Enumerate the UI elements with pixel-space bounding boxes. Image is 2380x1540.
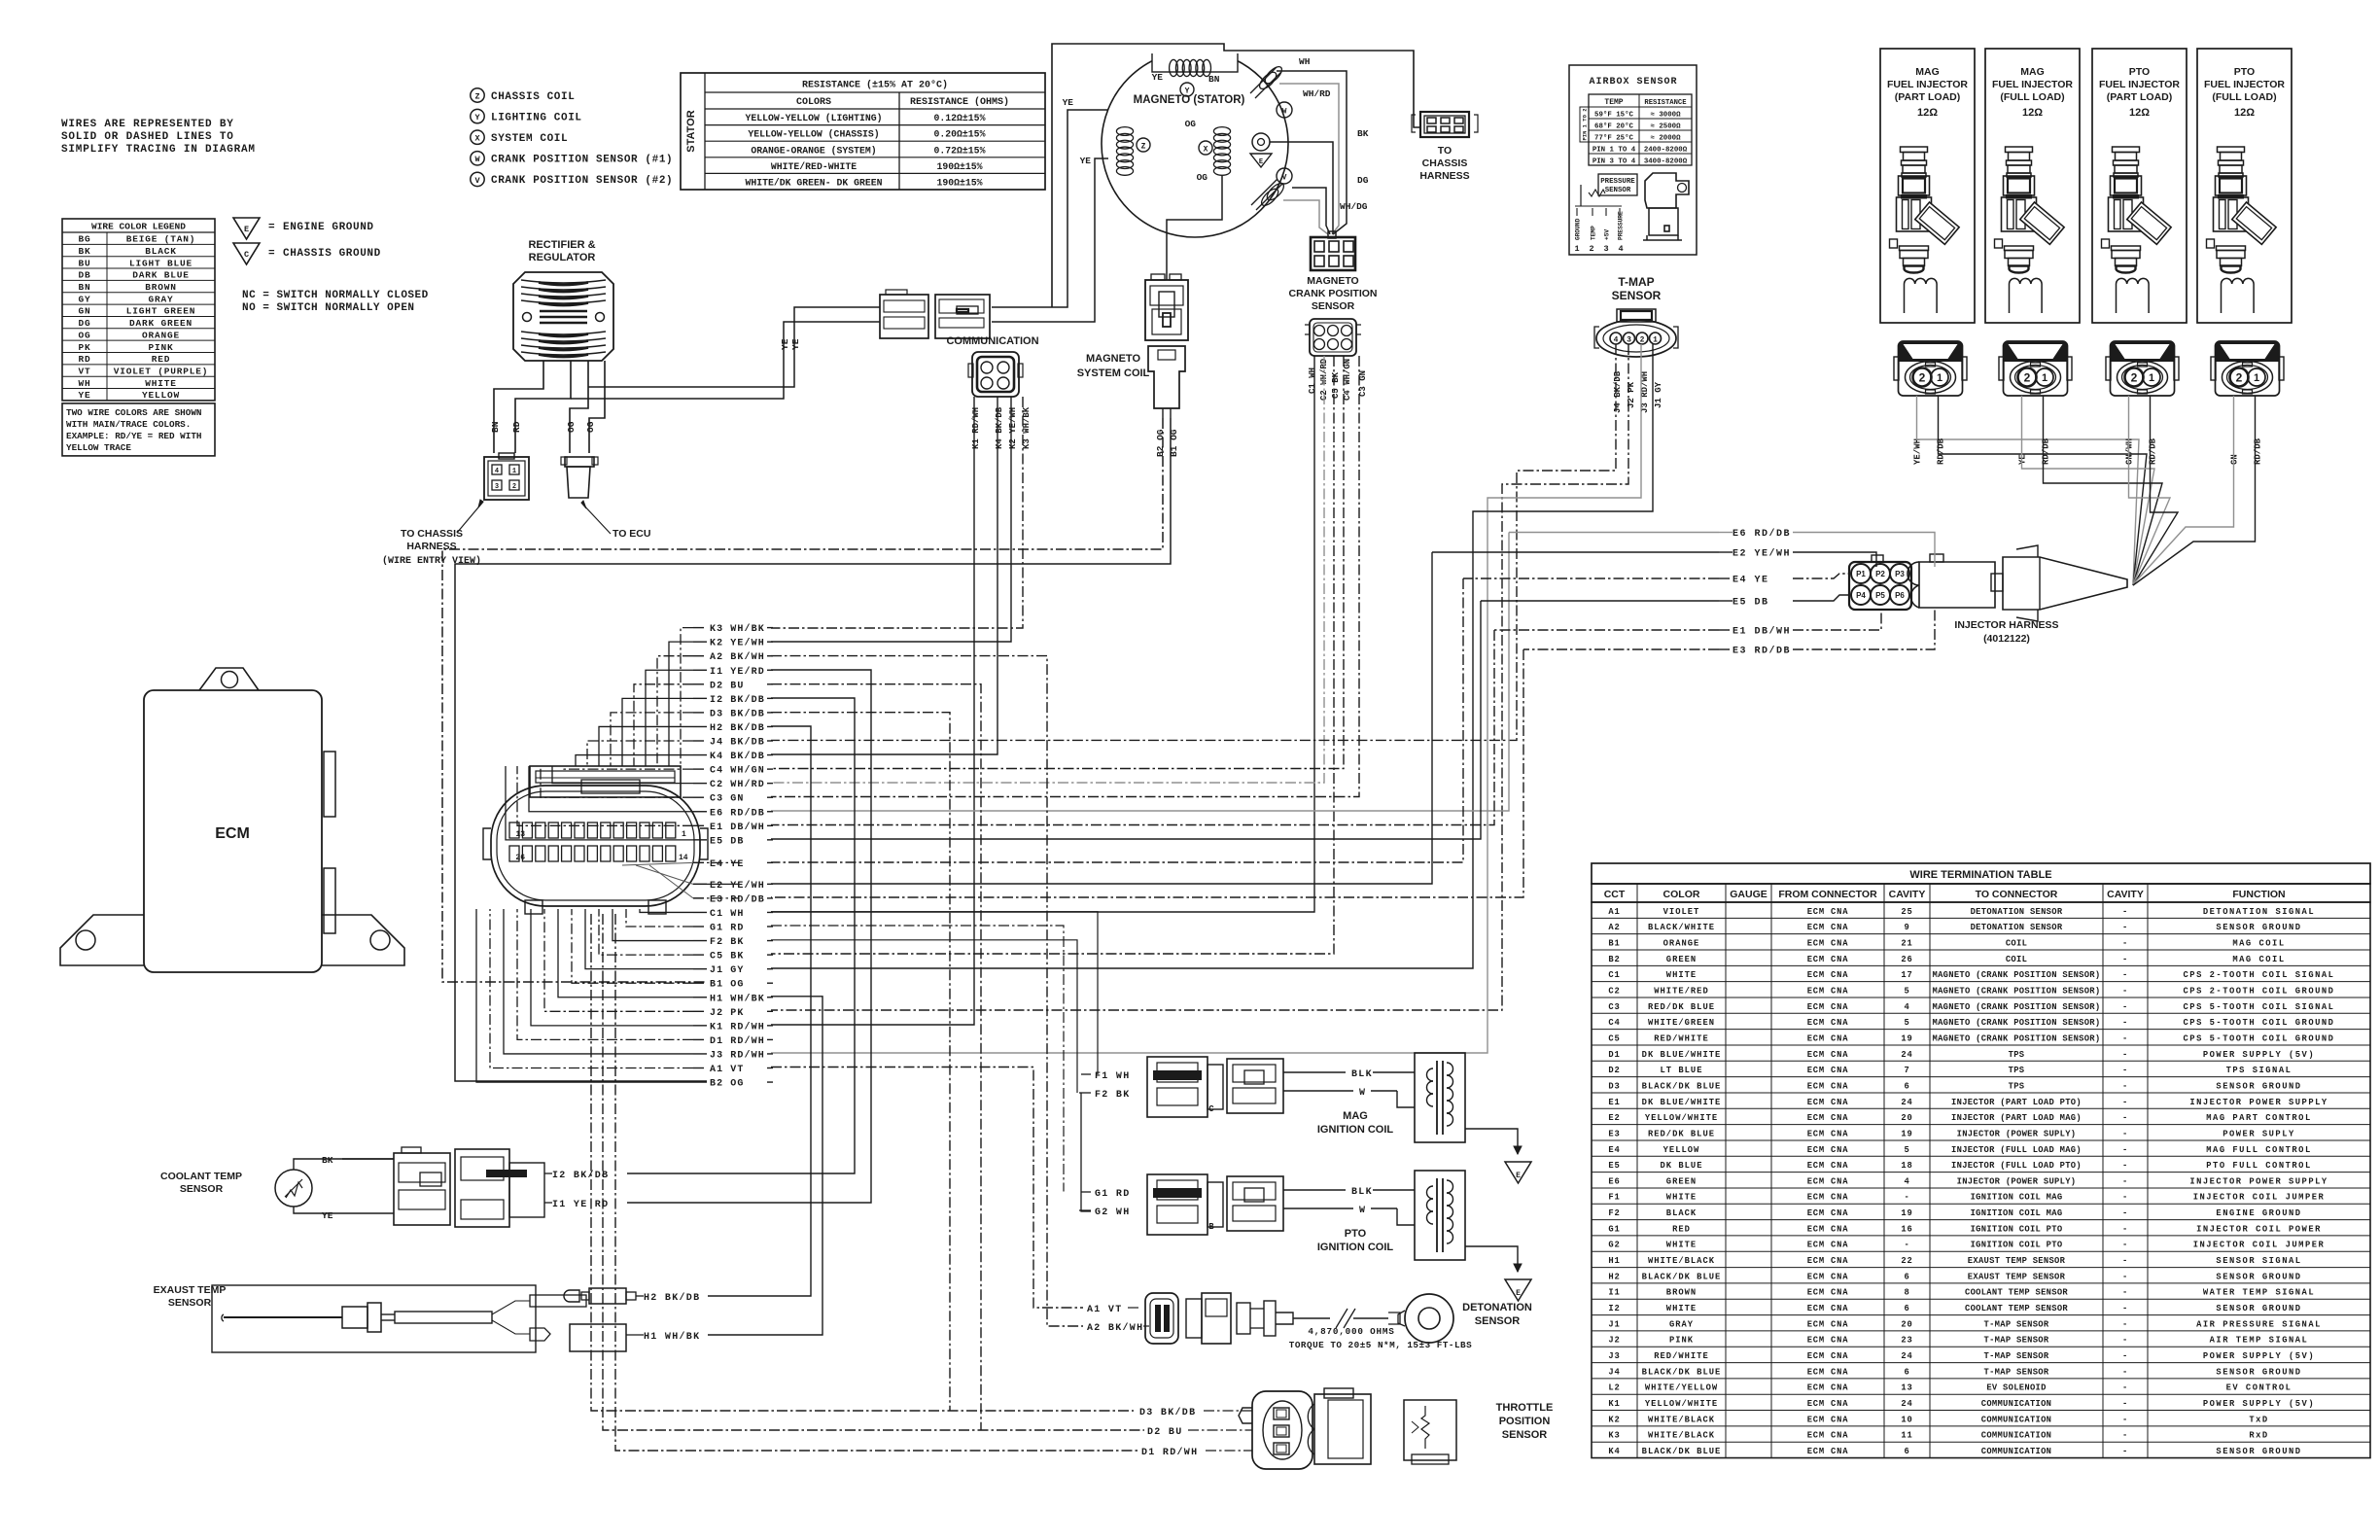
svg-text:F1 WH: F1 WH xyxy=(1095,1071,1131,1082)
svg-text:-: - xyxy=(2122,1113,2128,1123)
svg-text:A2: A2 xyxy=(1608,923,1620,932)
svg-text:SENSOR GROUND: SENSOR GROUND xyxy=(2216,1304,2301,1313)
wire rectifier RD to chassis connector xyxy=(515,361,571,453)
svg-text:GN: GN xyxy=(78,306,90,317)
svg-text:G2: G2 xyxy=(1608,1241,1620,1250)
ECM bottom-left mounting tab xyxy=(60,915,144,965)
svg-text:12Ω: 12Ω xyxy=(2129,107,2150,119)
connector: to chassis harness (6-pin top) xyxy=(1420,112,1469,137)
wire F2 link xyxy=(771,940,1077,1093)
wire B1 to ECM connector bottom xyxy=(572,909,693,983)
svg-text:0.12Ω±15%: 0.12Ω±15% xyxy=(934,113,986,123)
svg-text:A1: A1 xyxy=(1608,907,1620,917)
injector symbol MAG (FULL LOAD) xyxy=(1995,147,2065,273)
svg-text:RED/WHITE: RED/WHITE xyxy=(1654,1351,1709,1361)
svg-text:DG: DG xyxy=(78,318,90,329)
svg-text:PINK: PINK xyxy=(148,342,173,353)
svg-text:K1 RD/WH: K1 RD/WH xyxy=(971,407,981,449)
svg-text:K4 BK/DB: K4 BK/DB xyxy=(710,751,765,762)
svg-text:ECM CNA: ECM CNA xyxy=(1807,1399,1849,1409)
svg-text:RD: RD xyxy=(511,421,522,433)
svg-text:ECM CNA: ECM CNA xyxy=(1807,1319,1849,1329)
svg-text:PRESSURE: PRESSURE xyxy=(1618,211,1625,240)
ECM right side rib 2 xyxy=(324,868,335,933)
svg-text:-: - xyxy=(2122,1018,2128,1028)
svg-text:LT BLUE: LT BLUE xyxy=(1661,1066,1703,1075)
svg-text:OG: OG xyxy=(1197,172,1208,183)
svg-text:C2 WH/RD: C2 WH/RD xyxy=(710,779,765,790)
wire I1 coolant sensor to ECM xyxy=(627,670,871,1203)
chassis coil symbol Z xyxy=(1137,138,1150,152)
svg-text:MAGNETO (CRANK POSITION SENSOR: MAGNETO (CRANK POSITION SENSOR) xyxy=(1933,1018,2101,1028)
svg-text:W: W xyxy=(1359,1206,1366,1216)
svg-text:LIGHT GREEN: LIGHT GREEN xyxy=(126,306,196,317)
svg-text:NO = SWITCH NORMALLY OPEN: NO = SWITCH NORMALLY OPEN xyxy=(242,302,415,314)
detonation sensor cable with break xyxy=(1293,1317,1330,1319)
svg-text:23: 23 xyxy=(1901,1336,1912,1346)
svg-text:CHASSIS: CHASSIS xyxy=(1422,157,1468,169)
engine ground E below PTO coil xyxy=(1505,1279,1531,1301)
svg-text:SENSOR GROUND: SENSOR GROUND xyxy=(2216,1272,2301,1281)
svg-text:DARK GREEN: DARK GREEN xyxy=(129,318,192,329)
airbox pin labels xyxy=(1576,208,1578,216)
svg-text:ECM CNA: ECM CNA xyxy=(1807,1304,1849,1313)
svg-text:COMMUNICATION: COMMUNICATION xyxy=(946,335,1038,347)
svg-text:INJECTOR (FULL LOAD MAG): INJECTOR (FULL LOAD MAG) xyxy=(1951,1145,2082,1155)
svg-text:IGNITION COIL: IGNITION COIL xyxy=(1317,1124,1394,1136)
svg-text:COMMUNICATION: COMMUNICATION xyxy=(1981,1431,2052,1441)
svg-text:-: - xyxy=(2122,986,2128,996)
svg-text:E3 RD/DB: E3 RD/DB xyxy=(1732,646,1791,657)
svg-text:A2 BK/WH: A2 BK/WH xyxy=(710,651,765,663)
svg-text:1: 1 xyxy=(682,830,686,839)
svg-text:E6 RD/DB: E6 RD/DB xyxy=(710,807,765,819)
svg-text:E2 YE/WH: E2 YE/WH xyxy=(710,880,765,892)
legend: chassis ground symbol C xyxy=(233,243,260,264)
svg-text:-: - xyxy=(2122,1176,2128,1186)
svg-text:-: - xyxy=(2122,1351,2128,1361)
svg-text:BK: BK xyxy=(322,1155,333,1166)
PTO ignition coil mating connector xyxy=(1227,1176,1283,1231)
svg-text:IGNITION COIL PTO: IGNITION COIL PTO xyxy=(1971,1224,2063,1234)
fuel injector box PTO (FULL LOAD) xyxy=(2197,49,2292,323)
svg-text:CPS 5-TOOTH COIL SIGNAL: CPS 5-TOOTH COIL SIGNAL xyxy=(2184,1002,2335,1012)
svg-text:WITH MAIN/TRACE COLORS.: WITH MAIN/TRACE COLORS. xyxy=(66,419,191,430)
svg-text:PK: PK xyxy=(78,342,90,353)
svg-text:MAG COIL: MAG COIL xyxy=(2232,955,2285,964)
detonation sensor inline terminal xyxy=(1237,1303,1250,1334)
svg-text:MAGNETO (CRANK POSITION SENSOR: MAGNETO (CRANK POSITION SENSOR) xyxy=(1933,1002,2101,1012)
svg-text:I2 BK/DB: I2 BK/DB xyxy=(552,1170,609,1181)
svg-text:TxD: TxD xyxy=(2249,1415,2268,1424)
svg-text:IGNITION COIL PTO: IGNITION COIL PTO xyxy=(1971,1241,2063,1250)
svg-text:ECM CNA: ECM CNA xyxy=(1807,1367,1849,1377)
svg-text:K2 YE/WH: K2 YE/WH xyxy=(710,638,765,649)
svg-text:YE: YE xyxy=(1152,72,1164,83)
svg-text:LIGHTING COIL: LIGHTING COIL xyxy=(491,112,582,123)
svg-text:3400-8200Ω: 3400-8200Ω xyxy=(1644,158,1688,166)
injector connector MAG (PART LOAD) xyxy=(1894,341,1967,396)
svg-text:E6 RD/DB: E6 RD/DB xyxy=(1732,528,1791,540)
svg-text:E1 DB/WH: E1 DB/WH xyxy=(710,822,765,833)
svg-text:MAGNETO: MAGNETO xyxy=(1307,275,1358,287)
svg-text:RESISTANCE (OHMS): RESISTANCE (OHMS) xyxy=(910,96,1009,108)
svg-text:COOLANT TEMP SENSOR: COOLANT TEMP SENSOR xyxy=(1965,1288,2068,1298)
exhaust H1 terminal xyxy=(570,1324,626,1351)
svg-text:ECM CNA: ECM CNA xyxy=(1807,907,1849,917)
svg-text:YELLOW-YELLOW (LIGHTING): YELLOW-YELLOW (LIGHTING) xyxy=(745,113,882,123)
svg-text:WH/DG: WH/DG xyxy=(1340,201,1368,212)
throttle position sensor resistor box xyxy=(1404,1400,1456,1460)
svg-text:-: - xyxy=(2122,1304,2128,1313)
svg-text:5: 5 xyxy=(1904,986,1909,996)
wire YE rectifier run 2 xyxy=(571,322,880,399)
svg-text:ECM CNA: ECM CNA xyxy=(1807,1081,1849,1091)
svg-text:SIMPLIFY TRACING IN DIAGRAM: SIMPLIFY TRACING IN DIAGRAM xyxy=(61,144,256,156)
svg-text:C3 GN: C3 GN xyxy=(710,794,745,805)
svg-text:BK: BK xyxy=(78,246,90,257)
wire H1 to ECM connector bottom xyxy=(558,909,693,997)
svg-text:2: 2 xyxy=(512,483,516,491)
wire YE rectifier run 1 xyxy=(588,307,880,387)
svg-text:19: 19 xyxy=(1901,1033,1912,1043)
svg-text:(WIRE ENTRY VIEW): (WIRE ENTRY VIEW) xyxy=(382,555,481,567)
svg-text:4: 4 xyxy=(1618,244,1623,254)
svg-text:B2: B2 xyxy=(1608,955,1620,964)
svg-text:YE: YE xyxy=(1080,156,1092,166)
svg-text:DK BLUE/WHITE: DK BLUE/WHITE xyxy=(1642,1098,1722,1107)
svg-text:C5 BK: C5 BK xyxy=(1331,371,1341,399)
svg-text:CRANK POSITION: CRANK POSITION xyxy=(1288,288,1377,299)
svg-text:BLK: BLK xyxy=(1351,1187,1373,1198)
svg-text:-: - xyxy=(2122,1415,2128,1424)
svg-text:INJECTOR COIL JUMPER: INJECTOR COIL JUMPER xyxy=(2193,1241,2326,1250)
svg-text:1: 1 xyxy=(1653,335,1658,344)
svg-text:(FULL LOAD): (FULL LOAD) xyxy=(2212,91,2276,103)
exhaust H2 terminal xyxy=(564,1290,579,1302)
svg-text:I1 YE/RD: I1 YE/RD xyxy=(710,666,765,678)
svg-text:4: 4 xyxy=(1904,1002,1909,1012)
svg-text:P1: P1 xyxy=(1856,570,1866,578)
wire H2 to ECM connector top xyxy=(599,726,693,766)
svg-text:77°F 25°C: 77°F 25°C xyxy=(1594,134,1633,143)
svg-text:IGNITION COIL MAG: IGNITION COIL MAG xyxy=(1971,1193,2063,1203)
wire C2 to ECM connector top xyxy=(552,766,693,784)
wire E6 to ECM connector top xyxy=(529,766,693,812)
svg-text:E2: E2 xyxy=(1608,1113,1620,1123)
svg-text:0.20Ω±15%: 0.20Ω±15% xyxy=(934,129,986,140)
svg-text:K2: K2 xyxy=(1608,1415,1620,1424)
svg-text:E1: E1 xyxy=(1608,1098,1620,1107)
svg-text:6: 6 xyxy=(1904,1272,1909,1281)
svg-text:RECTIFIER &: RECTIFIER & xyxy=(528,239,595,251)
svg-text:4: 4 xyxy=(1614,335,1619,344)
wire termination table xyxy=(1592,863,2370,884)
stator top notch xyxy=(1152,52,1238,72)
wire YE pair to top chassis harness xyxy=(1052,44,1420,307)
svg-text:E5 DB: E5 DB xyxy=(1732,598,1769,609)
wire PTO coil to engine ground xyxy=(1465,1246,1518,1272)
svg-text:SENSOR: SENSOR xyxy=(1475,1315,1521,1327)
svg-text:CAVITY: CAVITY xyxy=(2107,889,2144,900)
svg-text:24: 24 xyxy=(1901,1351,1912,1361)
svg-text:-: - xyxy=(2122,970,2128,980)
ECM right side rib 1 xyxy=(324,752,335,817)
svg-text:RESISTANCE (±15% AT 20°C): RESISTANCE (±15% AT 20°C) xyxy=(802,80,948,91)
wire D1 RD/WH ECM to TPS xyxy=(615,914,1137,1451)
svg-text:INJECTOR POWER SUPPLY: INJECTOR POWER SUPPLY xyxy=(2189,1176,2327,1186)
svg-text:-: - xyxy=(2122,1002,2128,1012)
svg-text:CRANK POSITION SENSOR (#2): CRANK POSITION SENSOR (#2) xyxy=(491,175,673,187)
svg-text:CAVITY: CAVITY xyxy=(1889,889,1926,900)
wire A1 to ECM connector bottom xyxy=(490,909,693,1068)
airbox table side label pin 1 to 2 xyxy=(1580,107,1589,142)
svg-text:BROWN: BROWN xyxy=(145,282,177,293)
svg-text:OG: OG xyxy=(566,421,577,433)
svg-text:ECM CNA: ECM CNA xyxy=(1807,1145,1849,1155)
svg-text:TPS: TPS xyxy=(2009,1066,2025,1075)
svg-text:W: W xyxy=(1359,1088,1366,1099)
svg-text:BU: BU xyxy=(78,258,90,268)
svg-text:GN/WH: GN/WH xyxy=(2125,438,2135,465)
svg-text:E5 DB: E5 DB xyxy=(710,836,745,847)
svg-text:K4: K4 xyxy=(1608,1447,1620,1456)
wire J1 to ECM connector bottom xyxy=(585,909,693,969)
svg-text:WHITE: WHITE xyxy=(145,378,177,389)
svg-text:MAG: MAG xyxy=(1343,1110,1368,1122)
svg-text:2: 2 xyxy=(1640,335,1645,344)
svg-text:8: 8 xyxy=(1904,1288,1909,1298)
detonation sensor connector 1 xyxy=(1145,1293,1178,1344)
svg-text:INJECTOR POWER SUPPLY: INJECTOR POWER SUPPLY xyxy=(2189,1098,2327,1107)
svg-text:YE: YE xyxy=(780,338,790,350)
svg-text:K4 BK/DB: K4 BK/DB xyxy=(995,406,1004,449)
svg-text:YE: YE xyxy=(78,390,90,401)
svg-text:T-MAP SENSOR: T-MAP SENSOR xyxy=(1984,1351,2049,1361)
svg-text:DB: DB xyxy=(78,270,90,281)
svg-text:FUEL INJECTOR: FUEL INJECTOR xyxy=(2204,79,2285,90)
svg-text:PIN 1 TO 4: PIN 1 TO 4 xyxy=(1592,147,1636,155)
svg-text:Z: Z xyxy=(1141,142,1146,151)
svg-text:WHITE/BLACK: WHITE/BLACK xyxy=(1648,1256,1715,1266)
crank position sensor symbol V xyxy=(1277,168,1292,184)
svg-text:F2 BK: F2 BK xyxy=(1095,1090,1131,1101)
svg-text:INJECTOR (PART LOAD MAG): INJECTOR (PART LOAD MAG) xyxy=(1951,1113,2082,1123)
airbox sensor temp/resistance table xyxy=(1589,94,1692,165)
svg-text:YELLOW: YELLOW xyxy=(142,390,180,401)
svg-text:GY: GY xyxy=(78,294,90,304)
svg-text:-: - xyxy=(2122,1399,2128,1409)
svg-text:BN: BN xyxy=(490,421,501,433)
airbox sensor detail box xyxy=(1569,65,1697,255)
svg-text:C4 WH/GN: C4 WH/GN xyxy=(710,765,765,777)
MAG ignition coil connector C xyxy=(1147,1057,1207,1117)
svg-text:4: 4 xyxy=(495,468,499,475)
wire G2 WH jumper to PTO ignition coil xyxy=(1081,1093,1091,1211)
svg-text:BLACK/DK BLUE: BLACK/DK BLUE xyxy=(1642,1272,1722,1281)
svg-text:20: 20 xyxy=(1901,1113,1912,1123)
svg-text:CCT: CCT xyxy=(1604,889,1626,900)
svg-text:T-MAP: T-MAP xyxy=(1618,275,1654,289)
svg-text:COIL: COIL xyxy=(2006,955,2027,964)
svg-text:T-MAP SENSOR: T-MAP SENSOR xyxy=(1984,1336,2049,1346)
svg-text:EXAUST TEMP SENSOR: EXAUST TEMP SENSOR xyxy=(1968,1256,2066,1266)
fuel injector box MAG (PART LOAD) xyxy=(1880,49,1975,323)
svg-text:(FULL LOAD): (FULL LOAD) xyxy=(2000,91,2064,103)
svg-text:19: 19 xyxy=(1901,1129,1912,1138)
svg-text:ECM CNA: ECM CNA xyxy=(1807,1176,1849,1186)
svg-text:CRANK POSITION SENSOR (#1): CRANK POSITION SENSOR (#1) xyxy=(491,155,673,166)
svg-text:K1 RD/WH: K1 RD/WH xyxy=(710,1021,765,1032)
wire A1 VT ECM to detonation sensor xyxy=(771,1067,1083,1309)
svg-text:SENSOR GROUND: SENSOR GROUND xyxy=(2216,1447,2301,1456)
wire H2 exhaust sensor to ECM xyxy=(708,726,811,1296)
svg-text:CPS 5-TOOTH COIL GROUND: CPS 5-TOOTH COIL GROUND xyxy=(2184,1033,2335,1043)
svg-text:PTO: PTO xyxy=(1345,1228,1367,1240)
svg-text:6: 6 xyxy=(1904,1447,1909,1456)
svg-text:BLACK: BLACK xyxy=(145,246,177,257)
svg-text:C5: C5 xyxy=(1608,1033,1620,1043)
svg-text:=: = xyxy=(268,222,275,233)
svg-text:6: 6 xyxy=(1904,1081,1909,1091)
coolant temp sensor thermistor xyxy=(275,1170,312,1207)
svg-text:CPS 5-TOOTH COIL GROUND: CPS 5-TOOTH COIL GROUND xyxy=(2184,1018,2335,1028)
svg-text:-: - xyxy=(2122,1033,2128,1043)
wire color legend note xyxy=(62,403,215,456)
crank position sensor #2 V (slant coil) xyxy=(1251,179,1277,205)
svg-text:-: - xyxy=(2122,1050,2128,1060)
svg-text:BLACK/DK BLUE: BLACK/DK BLUE xyxy=(1642,1081,1722,1091)
svg-text:SENSOR: SENSOR xyxy=(1312,300,1355,312)
injector symbol PTO (PART LOAD) xyxy=(2102,147,2172,273)
injector connector PTO (PART LOAD) xyxy=(2106,341,2179,396)
svg-text:SENSOR: SENSOR xyxy=(168,1297,212,1309)
svg-text:-: - xyxy=(2122,1272,2128,1281)
svg-text:B1: B1 xyxy=(1608,938,1620,948)
injector connector PTO (FULL LOAD) xyxy=(2211,341,2284,396)
svg-text:RED: RED xyxy=(1672,1224,1691,1234)
svg-text:BN: BN xyxy=(78,282,90,293)
svg-text:COOLANT TEMP SENSOR: COOLANT TEMP SENSOR xyxy=(1965,1304,2068,1313)
wire J2 to ECM connector bottom xyxy=(544,909,693,1011)
svg-text:Y: Y xyxy=(1185,87,1190,95)
t-map sensor connector xyxy=(1617,309,1656,322)
svg-text:5: 5 xyxy=(1904,1018,1909,1028)
svg-text:YE: YE xyxy=(2018,454,2028,465)
svg-text:G1 RD: G1 RD xyxy=(1095,1189,1131,1200)
svg-text:-: - xyxy=(2122,1288,2128,1298)
svg-text:-: - xyxy=(1904,1193,1909,1203)
svg-text:A1 VT: A1 VT xyxy=(710,1065,745,1075)
svg-text:E: E xyxy=(1516,1289,1521,1298)
svg-text:COLORS: COLORS xyxy=(796,97,831,108)
stator resistance table xyxy=(681,73,1045,190)
svg-text:26: 26 xyxy=(515,854,525,862)
svg-text:YELLOW/WHITE: YELLOW/WHITE xyxy=(1645,1399,1718,1409)
svg-text:ENGINE GROUND: ENGINE GROUND xyxy=(283,222,374,233)
svg-text:PTO: PTO xyxy=(2234,66,2255,78)
svg-text:G1 RD: G1 RD xyxy=(710,924,745,934)
svg-text:D3 BK/DB: D3 BK/DB xyxy=(710,708,765,719)
svg-text:C: C xyxy=(244,250,249,260)
svg-text:-: - xyxy=(2122,1145,2128,1155)
svg-text:3: 3 xyxy=(495,483,499,491)
svg-text:-: - xyxy=(2122,1208,2128,1218)
svg-text:ORANGE-ORANGE (SYSTEM): ORANGE-ORANGE (SYSTEM) xyxy=(751,145,876,156)
svg-text:H2 BK/DB: H2 BK/DB xyxy=(710,722,765,734)
svg-text:I1 YE RD: I1 YE RD xyxy=(552,1200,609,1210)
svg-text:FROM CONNECTOR: FROM CONNECTOR xyxy=(1778,889,1877,900)
svg-text:ECM CNA: ECM CNA xyxy=(1807,1033,1849,1043)
svg-text:GN: GN xyxy=(2230,454,2240,465)
svg-text:OG: OG xyxy=(585,421,596,433)
svg-text:YELLOW-YELLOW (CHASSIS): YELLOW-YELLOW (CHASSIS) xyxy=(748,129,879,140)
wire H1 exhaust sensor to ECM xyxy=(708,997,822,1335)
svg-text:GRAY: GRAY xyxy=(1669,1319,1694,1329)
svg-text:J4: J4 xyxy=(1608,1367,1620,1377)
svg-text:CPS 2-TOOTH COIL SIGNAL: CPS 2-TOOTH COIL SIGNAL xyxy=(2184,970,2335,980)
svg-text:D1 RD/WH: D1 RD/WH xyxy=(1141,1447,1198,1458)
svg-text:+5V: +5V xyxy=(1604,229,1611,240)
svg-text:ECM CNA: ECM CNA xyxy=(1807,1113,1849,1123)
svg-text:D2: D2 xyxy=(1608,1066,1620,1075)
svg-text:WH/RD: WH/RD xyxy=(1303,88,1331,99)
svg-text:HARNESS: HARNESS xyxy=(1419,170,1469,182)
coolant sensor connector pair xyxy=(394,1153,450,1225)
svg-text:TPS: TPS xyxy=(2009,1050,2025,1060)
wire YE 2 from chassis coil to inline connector xyxy=(992,158,1108,322)
svg-text:INJECTOR COIL JUMPER: INJECTOR COIL JUMPER xyxy=(2193,1193,2326,1203)
wire G1 to ECM connector bottom xyxy=(626,909,693,927)
svg-text:YELLOW/WHITE: YELLOW/WHITE xyxy=(1645,1113,1718,1123)
svg-text:-: - xyxy=(2122,1129,2128,1138)
svg-text:ENGINE GROUND: ENGINE GROUND xyxy=(2216,1208,2301,1218)
wire E1 to ECM connector top xyxy=(517,766,693,825)
svg-text:CHASSIS COIL: CHASSIS COIL xyxy=(491,91,575,103)
wire K1 to ECM connector bottom xyxy=(531,909,693,1026)
wire OG from system coil to magneto system coil connector xyxy=(1167,176,1222,280)
svg-text:-: - xyxy=(2122,1367,2128,1377)
svg-text:W: W xyxy=(1282,108,1287,117)
svg-text:P3: P3 xyxy=(1895,570,1905,578)
svg-text:YE: YE xyxy=(790,338,801,350)
svg-text:ECM CNA: ECM CNA xyxy=(1807,1288,1849,1298)
svg-text:RED/DK BLUE: RED/DK BLUE xyxy=(1648,1002,1715,1012)
svg-text:C4: C4 xyxy=(1608,1018,1620,1028)
svg-text:I1: I1 xyxy=(1608,1288,1620,1298)
svg-text:MAG PART CONTROL: MAG PART CONTROL xyxy=(2206,1113,2311,1123)
svg-text:-: - xyxy=(2122,907,2128,917)
svg-text:C1 WH: C1 WH xyxy=(710,909,745,920)
svg-text:E3 RD/DB: E3 RD/DB xyxy=(710,893,765,905)
svg-text:25: 25 xyxy=(1901,907,1912,917)
svg-text:J2 PK: J2 PK xyxy=(710,1008,745,1019)
injector harness boot xyxy=(2003,557,2127,610)
stator ground symbol xyxy=(1252,133,1270,151)
ECM module xyxy=(144,690,322,972)
svg-text:OG: OG xyxy=(1185,119,1197,129)
svg-text:ECM CNA: ECM CNA xyxy=(1807,1208,1849,1218)
svg-text:6: 6 xyxy=(1904,1304,1909,1313)
svg-text:C1 WH: C1 WH xyxy=(1308,367,1317,394)
svg-text:4,870,000 OHMS: 4,870,000 OHMS xyxy=(1308,1326,1394,1337)
svg-text:YELLOW: YELLOW xyxy=(1663,1145,1700,1155)
svg-text:COMMUNICATION: COMMUNICATION xyxy=(1981,1447,2052,1456)
svg-text:T-MAP SENSOR: T-MAP SENSOR xyxy=(1984,1367,2049,1377)
wire rectifier OG 1 to ECU connector xyxy=(570,361,588,453)
svg-text:-: - xyxy=(2122,1336,2128,1346)
wire C1 to ECM connector bottom xyxy=(640,909,693,912)
